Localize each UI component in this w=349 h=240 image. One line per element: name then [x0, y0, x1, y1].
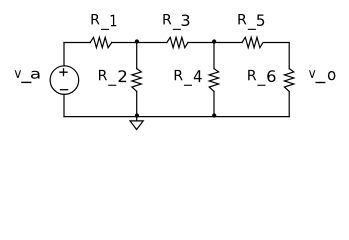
wire R2 branch lower [136, 91, 138, 116]
node junction dot top R2 [135, 39, 139, 43]
resistor R6 [284, 69, 293, 92]
label R_2 [99, 70, 107, 80]
wire top mid1 [112, 42, 167, 44]
wire right upper vertical [288, 43, 290, 69]
resistor R2 [132, 69, 141, 92]
node junction dot bottom R4 [212, 113, 216, 117]
wire R2 branch upper [136, 43, 138, 69]
wire top-right horizontal [263, 42, 289, 44]
node junction dot top R4 [212, 39, 216, 43]
label R_4 [175, 70, 183, 80]
ground [130, 121, 143, 130]
wire R4 branch upper [213, 43, 215, 69]
label R_5 [238, 14, 246, 24]
resistor R4 [209, 69, 218, 92]
wire left upper vertical [63, 43, 65, 66]
node junction dot bottom R2/ground [135, 113, 139, 117]
plus sign of v_a [60, 69, 67, 76]
wire R4 branch lower [213, 91, 215, 116]
minus sign of v_a [60, 89, 67, 91]
wire top mid2 [188, 42, 242, 44]
resistor R5 [242, 37, 263, 47]
label v_o [309, 70, 315, 78]
label R_6 [248, 70, 256, 80]
voltage source v_a [50, 66, 79, 95]
label R_1 [91, 14, 99, 24]
ground stub [136, 117, 138, 121]
wire top-left horizontal [64, 42, 90, 44]
label v_a [15, 70, 21, 78]
wire right lower vertical [288, 91, 290, 116]
label R_3 [163, 14, 171, 24]
wire left lower vertical [63, 94, 65, 116]
resistor R3 [167, 37, 188, 47]
wire bottom horizontal [64, 116, 289, 118]
resistor R1 [90, 37, 112, 47]
